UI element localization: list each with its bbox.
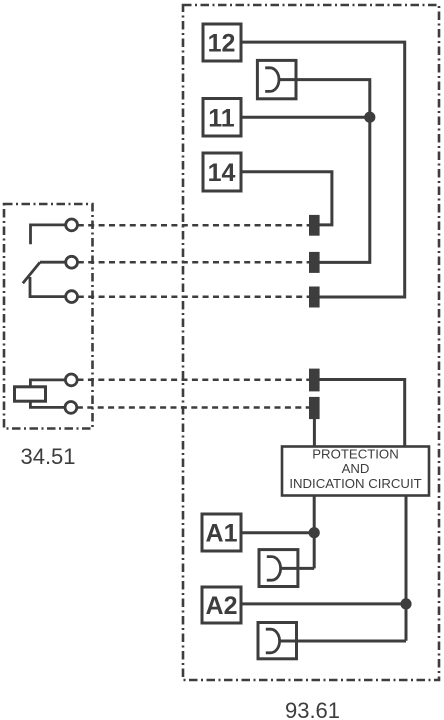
relay coil K1 [15,387,46,401]
dashed link pin P3 to contact bar T3 [78,296,310,299]
junction node N11 [364,112,375,123]
relay NC fixed contact (pin 12 side) [30,277,66,297]
enclosure socket 93.61 (dash-dot outline) [183,5,439,680]
terminal box A2 [202,587,241,623]
wire S3 to node NA2 [280,640,406,643]
relay pin P2 [66,256,78,268]
contact bar T3 [309,287,320,308]
relay pin P5 [65,402,77,414]
dashed link pin P2 to contact bar T2 [78,261,310,264]
wire S1 to node N11 [279,80,370,263]
socket clip symbol S1 [257,60,296,98]
svg-text:14: 14 [208,159,236,187]
svg-text:A1: A1 [206,520,238,548]
wire terminal 14 to contact bar T1 [241,172,332,225]
svg-text:A2: A2 [206,592,238,620]
contact bar T1 [309,215,320,236]
svg-text:AND: AND [342,461,370,476]
terminal box 14 [203,153,241,191]
socket clip symbol S2 [259,550,298,587]
junction node NA1 [309,527,320,538]
dashed link pin P4 to contact bar T4 [78,379,310,382]
relay pin P4 [65,374,77,386]
relay common lead (pin 11) [40,261,66,264]
dashed link pin P1 to contact bar T1 [78,224,310,227]
junction node NA2 [400,598,411,609]
wire terminal A1 to node NA1 [241,531,314,534]
svg-text:11: 11 [208,104,235,132]
svg-text:PROTECTION: PROTECTION [312,447,398,462]
wire contact bar T5 to protection circuit [313,419,316,447]
enclosure relay 34.51 (dash-dot outline) [4,204,93,429]
wire contact bar T4 to protection circuit [319,380,405,447]
terminal box 11 [203,99,241,137]
dashed link pin P5 to contact bar T5 [77,406,310,409]
wire terminal 12 to contact bar T3 [241,42,405,297]
relay pin P3 [66,291,78,303]
terminal box 12 [203,24,241,61]
protection and indication circuit U1 [282,447,429,496]
contact bar T4 [309,369,320,392]
wire protection circuit to node NA1 and S2 [313,496,316,569]
wire terminal A2 to node NA2 [241,602,406,605]
wire S2 to node NA1 [281,567,315,570]
contact bar T2 [309,252,320,273]
svg-text:12: 12 [208,30,236,58]
terminal box A1 [202,514,241,551]
socket clip symbol S3 [258,623,297,659]
relay movable blade [23,262,40,283]
relay pin P1 [66,219,78,231]
wire terminal 11 to node N11 [241,116,370,119]
relay NO fixed contact (pin 14 side) [31,225,66,244]
wire protection circuit to node NA2 and S3 [405,496,408,641]
coil lead to pin P5 [30,401,65,407]
svg-text:INDICATION CIRCUIT: INDICATION CIRCUIT [289,476,421,491]
coil lead to pin P4 [30,380,65,387]
svg-text:34.51: 34.51 [20,444,75,469]
svg-text:93.61: 93.61 [285,698,340,720]
contact bar T5 [309,397,320,419]
